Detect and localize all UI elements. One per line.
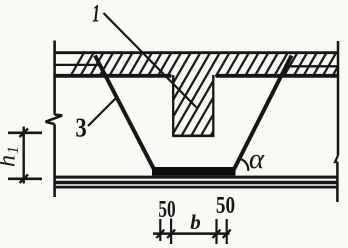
h1 bottom extension line bbox=[8, 178, 42, 181]
svg-text:b: b bbox=[190, 210, 201, 234]
right border vertical with subtle break bbox=[336, 41, 339, 202]
break mark on left vertical bbox=[45, 115, 62, 125]
h1 bottom tick bbox=[20, 175, 29, 184]
extension line at x160 bbox=[159, 219, 161, 241]
extension line at x227 bbox=[226, 219, 228, 244]
h1 top tick bbox=[20, 129, 29, 138]
left border vertical with break bbox=[53, 41, 56, 198]
bottom line L2 bbox=[54, 181, 338, 185]
bottom line L1 bbox=[54, 176, 338, 179]
left slope (edge of left plank) bbox=[95, 56, 154, 170]
tick at x160 bbox=[156, 230, 164, 238]
top line (top surface of screed) bbox=[54, 51, 340, 54]
bottom line L3 bbox=[54, 186, 338, 189]
angle arc at alpha bbox=[239, 159, 248, 171]
band bottom line (soffit of topping, broken at joint block) bbox=[54, 74, 338, 78]
break mark on right vertical bbox=[335, 156, 338, 163]
mid line left (top of left precast plank) bbox=[54, 64, 101, 66]
hatch of topping band and joint block (section hatching) bbox=[34, 48, 348, 140]
mid line right (top of right precast plank) bbox=[286, 65, 338, 67]
right slope (edge of right plank) bbox=[234, 56, 292, 170]
svg-text:α: α bbox=[249, 143, 265, 175]
h1 top extension line bbox=[8, 132, 42, 135]
joint block outline (element 1 stem) bbox=[173, 75, 213, 136]
bottom dimension line bbox=[153, 232, 230, 235]
svg-text:50: 50 bbox=[158, 195, 175, 223]
svg-text:50: 50 bbox=[216, 192, 235, 219]
tick at x227 bbox=[223, 230, 231, 238]
tick at x171 bbox=[167, 230, 175, 238]
extension line at x171 bbox=[170, 219, 172, 245]
leader line of label 3 bbox=[88, 97, 118, 127]
bottom sealing bar (thick black) bbox=[152, 167, 236, 176]
h1 dimension line bbox=[23, 127, 25, 184]
leader line of label 1 bbox=[104, 13, 197, 108]
tick at x216 bbox=[213, 230, 221, 238]
svg-text:1: 1 bbox=[92, 0, 100, 27]
extension line at x216 bbox=[215, 219, 217, 244]
svg-text:3: 3 bbox=[75, 114, 86, 143]
